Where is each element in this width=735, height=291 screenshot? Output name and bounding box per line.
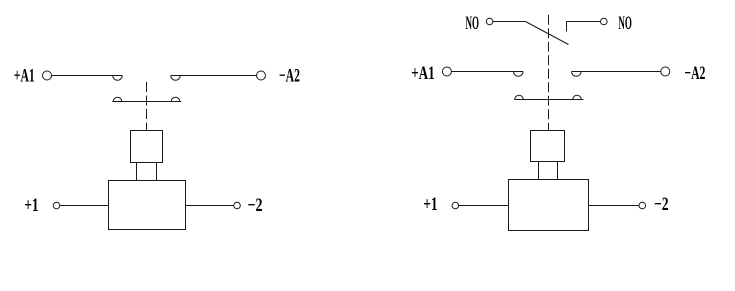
wire NO right — [567, 21, 601, 23]
terminal +A1 (K2) — [442, 67, 451, 76]
fixed contact left (K2) — [514, 72, 524, 77]
fixed contact left (K1) — [113, 76, 123, 81]
svg-text:−2: −2 — [654, 194, 669, 215]
svg-text:−2: −2 — [248, 195, 263, 216]
armature stem wires — [137, 163, 157, 181]
moving bridge contact bar (K1) — [112, 97, 181, 101]
coil box (K2) — [509, 180, 589, 231]
wire fixed contact to A2 — [171, 75, 257, 77]
svg-text:NO: NO — [466, 13, 480, 34]
svg-text:−A2: −A2 — [279, 65, 300, 86]
terminal -2 (K2) — [639, 202, 646, 209]
wire A1 to fixed contact (K2) — [451, 71, 523, 73]
wire +1 to coil — [60, 205, 109, 207]
terminal NO left — [486, 18, 493, 25]
svg-text:+1: +1 — [423, 194, 438, 215]
wire A1 to fixed contact — [52, 75, 123, 77]
svg-text:+1: +1 — [24, 195, 39, 216]
terminal -2 — [234, 202, 241, 209]
armature stem wires (K2) — [539, 161, 558, 180]
fixed contact right (K2) — [572, 72, 582, 77]
actuator link (dashed) — [146, 82, 148, 131]
aux switch blade — [526, 22, 569, 45]
actuator link (dashed, K2) — [548, 15, 550, 131]
svg-text:NO: NO — [618, 13, 632, 34]
wire coil to -2 — [186, 205, 234, 207]
coil box (K1) — [109, 181, 186, 230]
fixed contact right (K1) — [171, 76, 181, 81]
wire coil to -2 (K2) — [589, 205, 640, 207]
wire +1 to coil (K2) — [459, 205, 509, 207]
terminal +1 (K2) — [452, 202, 459, 209]
svg-text:+A1: +A1 — [14, 65, 35, 86]
svg-text:+A1: +A1 — [411, 63, 435, 84]
terminal -A2 — [257, 71, 266, 80]
wire NO left — [493, 21, 526, 23]
terminal +A1 — [43, 71, 52, 80]
terminal NO right — [601, 18, 608, 25]
wire fixed contact to A2 (K2) — [572, 71, 661, 73]
aux fixed contact stub — [566, 22, 568, 32]
terminal +1 — [53, 202, 60, 209]
svg-text:−A2: −A2 — [684, 63, 705, 84]
terminal -A2 (K2) — [661, 67, 670, 76]
moving bridge contact bar (K2) — [514, 95, 583, 99]
armature box (K1) — [131, 131, 163, 163]
armature box (K2) — [531, 131, 565, 162]
